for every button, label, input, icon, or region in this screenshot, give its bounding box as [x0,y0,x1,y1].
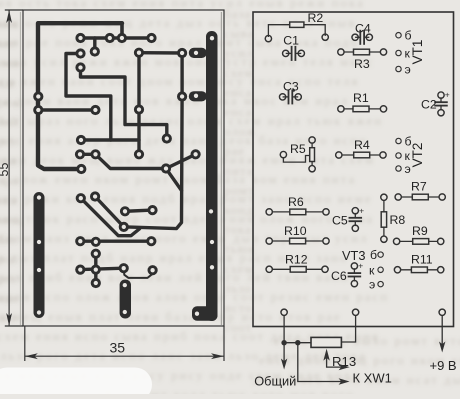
pad 20 [191,149,201,159]
svg-text:схем: схем [224,261,254,276]
svg-text:база: база [224,6,251,21]
svg-text:R5: R5 [290,142,306,156]
svg-text:рез: рез [0,271,16,286]
resistor R1 [338,91,387,112]
wire: row y269 [80,268,123,269]
svg-text:+: + [359,205,364,215]
svg-text:+: + [445,90,450,100]
pad 21 [161,163,171,173]
svg-text:рог: рог [0,251,16,266]
svg-text:енса: енса [224,104,252,119]
terminal: +9V [439,309,445,315]
pad 8 [134,48,144,58]
svg-text:усил: усил [224,45,254,60]
pad 30 [146,236,156,246]
wire: dog-leg thin [124,268,153,278]
wire: junction diagonal to pad [166,154,196,168]
svg-text:б: б [370,248,377,262]
pad 11 [33,105,43,115]
svg-text:сыва: сыва [224,26,254,41]
transistor VT1 pads [396,29,425,77]
svg-text:R11: R11 [411,253,433,267]
wire: row y241 [80,239,151,242]
svg-text:35: 35 [110,340,126,356]
capacitor C4 [352,21,372,44]
pad 28 [75,236,85,246]
wire: diagonal A with jog [81,198,140,236]
wire: R13 right lead up to terminal [342,315,356,342]
pad 9 [177,48,187,58]
dimension line 35 (horizontal) [24,326,26,361]
copper bar (left, ground strip) [34,192,45,318]
pad 7 [75,62,85,72]
pad 34 [119,263,129,273]
wire: nested elbow A [66,54,111,141]
wire: top pad row [81,36,152,39]
svg-text:VT2: VT2 [410,143,425,168]
resistor R5 (trimmer, vertical) [280,137,315,172]
wire: stub down [94,270,97,283]
pad 5 [90,46,100,56]
svg-text:пита: пита [224,163,254,178]
copper bus bar (right) with bottom foot [206,31,218,321]
resistor R3 [338,49,387,71]
wire: diagonal into junction [96,154,167,168]
pad 3 [117,33,127,43]
svg-text:R2: R2 [308,11,324,25]
svg-text:C2: C2 [421,98,437,112]
pad 29 [91,237,101,247]
pad 22 [76,164,86,174]
capacitor C5 [332,205,364,231]
svg-text:+9 В: +9 В [430,358,457,373]
pad 19 [134,149,144,159]
wire: nested elbow B [81,68,167,139]
pad 4 [146,33,156,43]
resistor R11 [394,253,444,273]
svg-text:VT1: VT1 [410,40,425,65]
pad 33 [91,265,101,275]
wire: left horiz [38,108,95,111]
svg-text:R7: R7 [411,180,427,194]
pad 26 [120,206,130,216]
ghost line along PCB left edge [19,12,21,325]
wire: horiz to vertical [81,138,139,141]
wire: vertical mid [137,53,140,155]
svg-text:кот: кот [0,36,16,51]
wire: stub down [93,38,96,52]
resistor R10 [266,224,329,244]
wire: diagonal B [95,197,124,227]
svg-text:конд: конд [224,202,254,217]
svg-text:схем: схем [224,65,254,80]
pad 6 [75,48,85,58]
junction dot B [295,340,300,345]
svg-text:C3: C3 [283,80,299,94]
svg-text:мещ: мещ [0,212,22,227]
arrow: wiper of R13 to K XW1 [323,349,329,361]
pad 16 [162,133,172,143]
resistor R8 (vertical) [381,194,406,242]
svg-text:емен мкос выхо ромт ветс оров: емен мкос выхо ромт ветс оров [274,333,460,348]
pad 15 [76,135,86,145]
resistor R4 [336,138,387,158]
pad 32 [75,265,85,275]
svg-text:R8: R8 [390,213,406,227]
svg-text:55: 55 [0,163,11,177]
svg-text:вде: вде [0,75,16,90]
component placement panel border [253,12,454,327]
arrow: ground (Общий) [283,343,285,363]
transistor VT2 pads [396,135,425,177]
svg-text:К XW1: К XW1 [353,371,392,386]
pad 31 [91,249,101,259]
pad 13 [134,104,144,114]
wire+arrow: +9V [441,315,443,346]
svg-text:R1: R1 [353,91,369,105]
svg-text:олож: олож [224,124,256,139]
svg-text:R10: R10 [284,224,307,238]
wire: right vert upper [180,53,183,97]
svg-text:льзо: льзо [224,280,252,295]
svg-text:C1: C1 [283,33,299,47]
resistor R12 [266,253,328,273]
pad 27 [147,205,157,215]
capacitor C2 [421,90,450,116]
transistor VT3 pads [342,248,383,292]
wire: long vertical with bend to pad [124,97,182,229]
junction dot A [281,340,286,345]
wire: horiz pair [125,210,153,211]
wire: row2 [139,51,182,55]
svg-text:рае: рае [224,143,245,158]
svg-text:реж: реж [0,94,20,109]
svg-text:э: э [369,278,375,292]
svg-text:исто: исто [224,300,253,315]
svg-text:соот: соот [224,320,252,335]
dimension line 55 (vertical) [5,9,23,11]
svg-text:тока: тока [224,222,252,237]
svg-text:C5: C5 [332,214,348,228]
svg-text:C4: C4 [355,21,371,35]
resistor R9 [393,224,443,245]
pad 35 [148,265,158,275]
wire: stub [94,254,97,270]
wire: top-left loop to pad [38,23,122,169]
pad 23 [76,193,86,203]
wire: pad pair link [80,153,96,156]
svg-text:енса: енса [224,84,252,99]
capacitor C6 [331,261,363,287]
svg-text:R4: R4 [354,138,370,152]
svg-text:рез: рез [0,134,16,149]
svg-text:ромт: ромт [224,182,255,197]
wire: drop to pad [120,23,124,38]
pad 25 [119,222,129,232]
svg-text:R9: R9 [412,224,428,238]
svg-text:R3: R3 [354,57,370,71]
resistor R6 [266,195,329,215]
wire: junction chevron leg [166,169,182,191]
capacitor C1 [283,33,305,61]
pad 18 [90,149,100,159]
pad 36 [91,278,101,288]
svg-text:R6: R6 [288,195,304,209]
resistor R7 [395,180,445,201]
copper bar (short, bottom middle) [120,280,131,319]
resistor R13 (potentiometer) [311,337,356,369]
svg-text:C6: C6 [331,269,347,283]
pad 17 [75,149,85,159]
svg-text:Общий: Общий [254,373,296,388]
svg-text:VT3: VT3 [342,248,365,263]
terminal: R13 top [352,309,358,315]
wire+arrow: junction B to K XW1 [298,343,343,382]
pad 12 [90,105,100,115]
svg-text:к: к [369,263,375,277]
resistor R2 [265,11,328,42]
terminal: common output [281,309,287,315]
capacitor C3 [279,80,301,105]
svg-text:баз: баз [0,232,16,247]
pad 1 [75,33,85,43]
svg-text:тьюк: тьюк [224,241,256,256]
wire: junction link + R13 left lead [284,342,311,344]
pad 14 [177,91,187,101]
ghost line (scan doubling) along PCB right edge [220,12,222,325]
white overlay blob (scan artifact) [0,368,152,399]
PCB board outline [23,10,224,326]
svg-text:R12: R12 [285,253,308,267]
wire: common down to junction [283,315,285,343]
pad 2 [105,33,115,43]
svg-text:нса: нса [0,192,17,207]
pad 24 [90,191,100,201]
svg-text:ены: ены [0,55,20,70]
pad 10 [33,91,43,101]
